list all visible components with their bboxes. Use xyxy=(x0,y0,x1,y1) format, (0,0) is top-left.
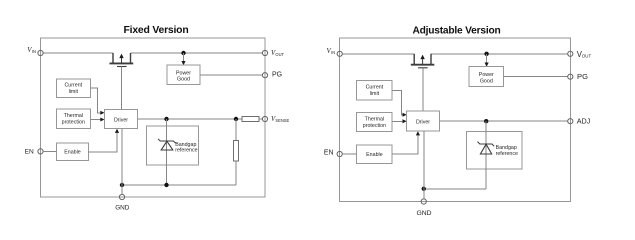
node power-good tap on VOUT rail xyxy=(181,51,185,55)
svg-text:PG: PG xyxy=(577,72,588,81)
svg-text:EN: EN xyxy=(324,150,334,157)
Q2 source lead xyxy=(413,54,415,64)
svg-text:Driver: Driver xyxy=(416,119,430,125)
wire Current limit to Driver (adj) xyxy=(392,90,403,114)
block Driver xyxy=(105,110,138,129)
pin PG (fixed) xyxy=(262,73,267,78)
Q2 drain lead xyxy=(430,54,432,64)
pin VIN (adj) xyxy=(337,51,342,56)
svg-text:Fixed Version: Fixed Version xyxy=(124,25,189,36)
pin VIN (fixed) xyxy=(38,50,43,55)
diode D2 zener in bandgap (adj) xyxy=(478,142,495,154)
svg-text:PG: PG xyxy=(272,71,282,78)
svg-text:OUT: OUT xyxy=(275,52,284,57)
pin ADJ (adj) xyxy=(568,119,573,124)
pin PG (adj) xyxy=(568,74,573,79)
block Power Good xyxy=(167,65,200,84)
svg-text:reference: reference xyxy=(496,151,518,157)
svg-text:Adjustable Version: Adjustable Version xyxy=(412,25,500,36)
svg-text:Bandgap: Bandgap xyxy=(496,145,517,151)
svg-text:IN: IN xyxy=(32,49,36,54)
pin GND (fixed) xyxy=(119,194,124,199)
svg-text:reference: reference xyxy=(175,147,197,153)
node divider tap on feedback line xyxy=(234,117,238,121)
wire VIN top rail left segment xyxy=(43,52,113,54)
resistor R2 (divider to ground) xyxy=(235,119,237,141)
wire bandgap vertical xyxy=(166,119,168,185)
svg-text:Thermal: Thermal xyxy=(365,117,384,123)
wire driver down to GND pin xyxy=(121,129,123,195)
svg-text:limit: limit xyxy=(69,89,79,95)
svg-text:SENSE: SENSE xyxy=(275,118,289,123)
wire Enable to Driver with arrow (adj) xyxy=(392,135,418,155)
transistor Q2 pass PMOS (adj) xyxy=(411,54,435,111)
svg-text:Current: Current xyxy=(366,85,384,91)
transistor Q1 pass PMOS xyxy=(110,53,134,110)
svg-text:protection: protection xyxy=(62,119,85,125)
Q2 body arrow xyxy=(422,58,424,64)
wire internal ground bus (fixed) xyxy=(122,184,236,186)
Q2 channel bar xyxy=(411,64,435,66)
svg-text:Thermal: Thermal xyxy=(64,113,83,119)
block Enable xyxy=(56,143,88,160)
wire bandgap vertical (adj) xyxy=(485,121,487,189)
pin VOUT (fixed) xyxy=(262,50,267,55)
wire Thermal protection to Driver xyxy=(90,119,101,121)
wire R1 to VSENSE pin xyxy=(259,118,263,120)
svg-text:Driver: Driver xyxy=(114,117,128,123)
svg-text:GND: GND xyxy=(115,205,130,212)
node bandgap/gnd junction xyxy=(164,183,168,187)
pin VOUT (adj) xyxy=(568,51,573,56)
wire Power Good to PG pin xyxy=(200,74,262,76)
svg-text:Enable: Enable xyxy=(64,150,81,156)
pin EN (fixed) xyxy=(38,149,43,154)
svg-text:Good: Good xyxy=(177,77,190,83)
block Bandgap reference xyxy=(147,126,199,165)
wire Enable to Driver with arrow xyxy=(89,132,117,152)
resistor R1 (series to VSENSE) xyxy=(242,116,259,121)
wire EN to Enable xyxy=(43,150,56,152)
wire Current limit to Driver xyxy=(90,88,101,113)
pin VSENSE (fixed) xyxy=(262,116,267,121)
wire Driver output to VSENSE feedback line xyxy=(138,118,243,120)
Q1 body arrow xyxy=(121,57,123,63)
node bandgap tap on ADJ line xyxy=(484,119,488,123)
wire driver down to GND pin (adj) xyxy=(423,131,425,199)
wire VIN top rail left segment (adj) xyxy=(342,53,414,55)
svg-text:Power: Power xyxy=(176,71,191,77)
wire Driver output to ADJ pin xyxy=(439,120,568,122)
node gnd junction (adj) xyxy=(422,187,426,191)
wire Q1 gate to driver xyxy=(121,67,123,110)
block Driver (adj) xyxy=(407,111,440,131)
block Current limit (adj) xyxy=(357,80,392,100)
svg-text:Good: Good xyxy=(480,78,493,84)
IC boundary frame (fixed) xyxy=(41,38,266,197)
svg-text:IN: IN xyxy=(331,50,335,55)
svg-text:OUT: OUT xyxy=(582,54,592,59)
wire VOUT top rail right segment xyxy=(131,52,263,54)
svg-text:Current: Current xyxy=(64,83,82,89)
Q1 drain lead xyxy=(130,53,132,63)
node power-good tap on rail (adj) xyxy=(484,52,488,56)
block Current limit xyxy=(56,79,90,98)
wire Q2 gate to driver xyxy=(422,68,424,111)
wire internal ground bus (adj) xyxy=(424,188,486,190)
wire rail to Power Good with arrow xyxy=(183,53,185,61)
Q2 gate bar xyxy=(418,67,428,69)
node driver/gnd junction xyxy=(120,183,124,187)
pin GND (adj) xyxy=(421,199,426,204)
svg-text:Power: Power xyxy=(479,72,494,78)
block Thermal protection xyxy=(56,109,90,129)
wire VOUT top rail right segment (adj) xyxy=(431,53,568,55)
svg-text:EN: EN xyxy=(25,148,34,155)
Q1 source lead xyxy=(112,53,114,63)
svg-text:GND: GND xyxy=(416,210,431,217)
IC boundary frame (adjustable) xyxy=(340,38,571,202)
svg-text:protection: protection xyxy=(363,123,386,129)
wire EN to Enable (adj) xyxy=(342,153,357,155)
diode D1 zener in bandgap xyxy=(158,139,176,150)
svg-text:Enable: Enable xyxy=(366,152,383,158)
block Thermal protection (adj) xyxy=(357,113,392,132)
wire Power Good to PG pin (adj) xyxy=(504,76,568,78)
wire Thermal protection to Driver (adj) xyxy=(392,120,403,122)
svg-text:ADJ: ADJ xyxy=(577,117,591,126)
Q1 channel bar xyxy=(110,62,134,64)
block Enable (adj) xyxy=(357,145,392,163)
block Power Good (adj) xyxy=(469,67,503,87)
node bandgap tap on feedback line xyxy=(164,117,168,121)
Q1 gate bar xyxy=(117,66,127,68)
svg-text:limit: limit xyxy=(370,91,380,97)
block Bandgap reference (adj) xyxy=(467,132,522,170)
wire rail to Power Good with arrow (adj) xyxy=(486,54,488,63)
pin EN (adj) xyxy=(337,151,342,156)
